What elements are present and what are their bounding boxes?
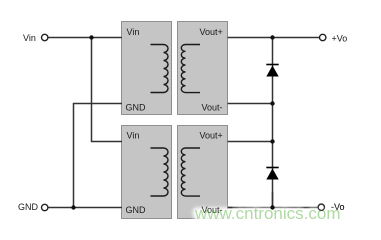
svg-text:-Vo: -Vo [331,202,345,212]
svg-text:Vout-: Vout- [202,205,223,215]
